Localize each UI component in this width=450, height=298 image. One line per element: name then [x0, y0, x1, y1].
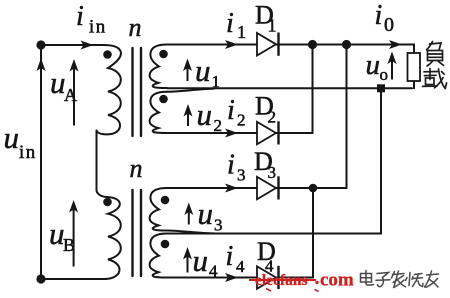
wire u3 bottom merging into lower return rail [167, 231, 214, 234]
diode D1 [257, 33, 279, 56]
diode D3 [257, 176, 279, 199]
svg-text:i: i [76, 1, 84, 32]
node primary upper polarity dot [103, 50, 112, 59]
wire load return riser [380, 88, 382, 233]
load resistor rectangle [408, 53, 421, 81]
node input top terminal [36, 40, 45, 49]
watermark small red marks [266, 289, 271, 292]
wire D2 riser up to output rail [312, 45, 314, 134]
svg-text:2: 2 [214, 116, 223, 135]
wire u1 bottom return rail to load [167, 87, 412, 89]
watermark elecfans.com [255, 270, 354, 291]
transformer core upper bars [133, 48, 142, 136]
svg-text:in: in [19, 142, 37, 163]
secondary winding u1 coil [150, 45, 167, 89]
wire lower return rail [167, 233, 381, 235]
svg-text:i: i [226, 241, 234, 272]
wire u3 top to D3 [167, 187, 347, 189]
diode D2 [257, 121, 279, 144]
arrow u2 [184, 104, 193, 117]
node D3-D4 junction [309, 184, 318, 193]
arrow i_1 [225, 40, 238, 49]
node input bottom terminal [36, 274, 45, 283]
svg-text:i: i [375, 0, 383, 31]
svg-text:in: in [89, 17, 107, 38]
arrow i_0 [389, 40, 402, 49]
svg-text:3: 3 [237, 166, 246, 185]
watermark 电子发烧友 (drawn strokes) [361, 271, 439, 288]
wire u2 top merging into return rail [167, 89, 214, 92]
wire primary center vertical [96, 131, 98, 191]
secondary winding u4 coil [150, 234, 167, 278]
arrow i_3 [225, 184, 238, 193]
svg-text:u: u [197, 97, 213, 132]
arrow u4 [183, 247, 192, 260]
svg-text:u: u [195, 53, 211, 88]
arrow u_A [70, 59, 79, 72]
svg-text:i: i [226, 8, 234, 39]
wire top-left horizontal input [41, 44, 103, 46]
node primary lower polarity dot [103, 198, 112, 207]
diode D4 [257, 266, 279, 289]
label load 负载 (drawn strokes) [423, 42, 447, 89]
node u2 polarity dot [159, 95, 168, 104]
svg-text:u: u [198, 196, 214, 231]
node D1-D2 junction on rail [308, 40, 317, 49]
node u4 polarity dot [161, 240, 170, 249]
svg-text:n: n [130, 154, 143, 183]
transformer primary winding upper (u_A) [97, 45, 121, 134]
svg-text:1: 1 [268, 16, 277, 36]
svg-text:2: 2 [237, 111, 246, 130]
svg-text:u: u [4, 120, 20, 155]
secondary winding u3 coil [150, 188, 167, 231]
transformer core lower bars [133, 190, 142, 276]
node load return junction (square) [377, 84, 385, 92]
arrow u_o [388, 52, 397, 65]
wire u1 top to D1 and output rail [167, 44, 412, 46]
node u3 polarity dot [161, 196, 170, 205]
svg-text:i: i [227, 150, 235, 181]
wire D4 riser up to D3 junction [312, 188, 314, 278]
svg-text:u: u [366, 49, 381, 81]
wire D3 riser up to output rail [346, 45, 348, 189]
wire load top drop [412, 45, 414, 54]
svg-text:u: u [193, 243, 209, 278]
wire u4 bottom to D4 [167, 277, 313, 279]
svg-text:1: 1 [237, 22, 246, 42]
arrow u1 [183, 59, 192, 72]
svg-text:o: o [380, 65, 389, 84]
wire load bottom drop [413, 81, 415, 88]
svg-text:3: 3 [268, 163, 277, 182]
wire left input vertical [40, 45, 42, 279]
arrow u_in on left wire [37, 58, 46, 71]
svg-text:com: com [320, 270, 354, 291]
node u1 polarity dot [159, 50, 168, 59]
node D3 riser junction on rail [342, 40, 351, 49]
svg-text:1: 1 [212, 72, 221, 91]
transformer primary winding lower (u_B) [97, 190, 121, 279]
arrow u3 [184, 203, 193, 216]
arrow u_B [69, 200, 78, 213]
arrow i_4 [225, 273, 238, 282]
svg-text:4: 4 [209, 262, 218, 281]
wire bottom-left horizontal input [41, 278, 106, 280]
arrow i_in on input wire [81, 41, 94, 50]
svg-text:A: A [64, 85, 77, 105]
secondary winding u2 coil [150, 92, 167, 133]
svg-text:3: 3 [214, 216, 223, 235]
wire u2 bottom to D2 [167, 132, 313, 134]
svg-text:i: i [227, 95, 235, 126]
watermark strikethrough [249, 279, 316, 281]
arrow i_2 [225, 129, 238, 138]
svg-text:B: B [63, 235, 75, 255]
svg-text:4: 4 [236, 257, 245, 276]
svg-text:n: n [129, 13, 142, 42]
svg-text:0: 0 [384, 14, 394, 36]
svg-text:2: 2 [268, 108, 277, 127]
